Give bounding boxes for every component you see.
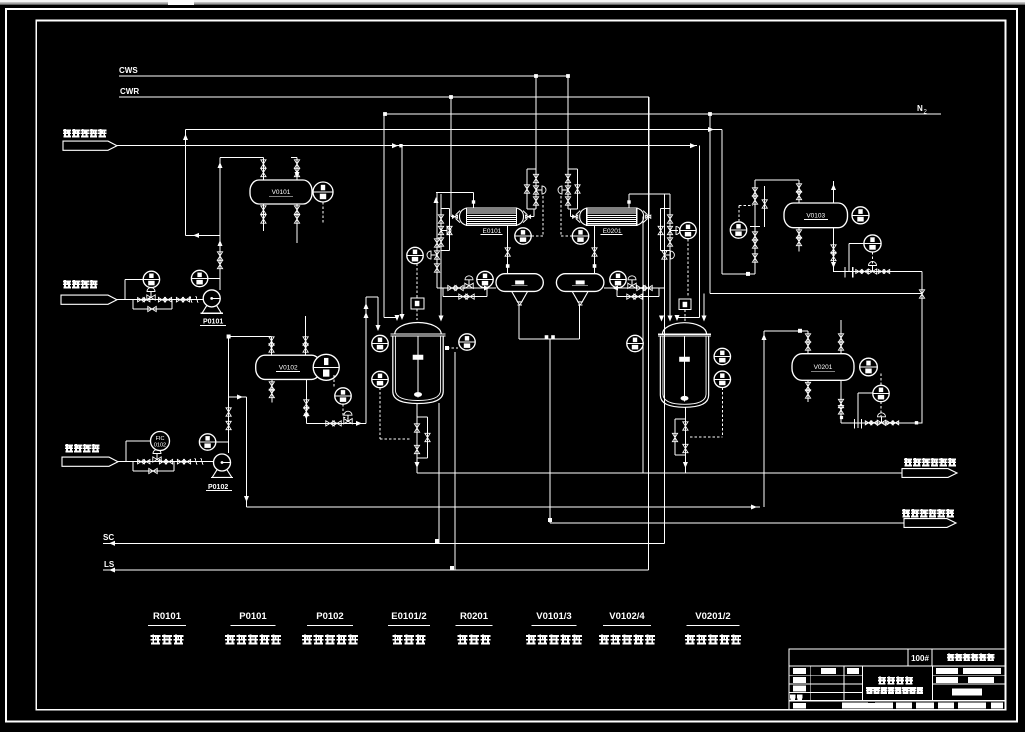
svg-text:R0201: R0201 (460, 611, 489, 622)
svg-text:E0101/2: E0101/2 (391, 611, 426, 622)
svg-text:SC: SC (103, 533, 114, 542)
svg-text:V0101: V0101 (272, 189, 291, 196)
svg-text:V0101/3: V0101/3 (536, 611, 571, 622)
svg-text:V0102/4: V0102/4 (609, 611, 645, 622)
svg-text:V0103: V0103 (806, 213, 825, 220)
svg-text:E0101: E0101 (483, 228, 502, 235)
svg-text:P0102: P0102 (208, 484, 228, 491)
svg-text:V0201/2: V0201/2 (695, 611, 730, 622)
svg-text:P0101: P0101 (203, 319, 223, 326)
svg-text:E0201: E0201 (603, 228, 622, 235)
svg-text:100#: 100# (911, 654, 929, 663)
svg-text:CWR: CWR (120, 87, 139, 96)
svg-text:V0102: V0102 (279, 365, 298, 372)
svg-text:0102: 0102 (154, 443, 166, 449)
svg-text:LS: LS (104, 560, 115, 569)
svg-text:FIC: FIC (156, 436, 165, 442)
svg-text:CWS: CWS (119, 66, 138, 75)
svg-text:P0101: P0101 (239, 611, 267, 622)
svg-text:N: N (917, 104, 923, 113)
svg-text:R0101: R0101 (153, 611, 182, 622)
svg-text:P0102: P0102 (316, 611, 343, 622)
svg-text:V0201: V0201 (814, 364, 833, 371)
